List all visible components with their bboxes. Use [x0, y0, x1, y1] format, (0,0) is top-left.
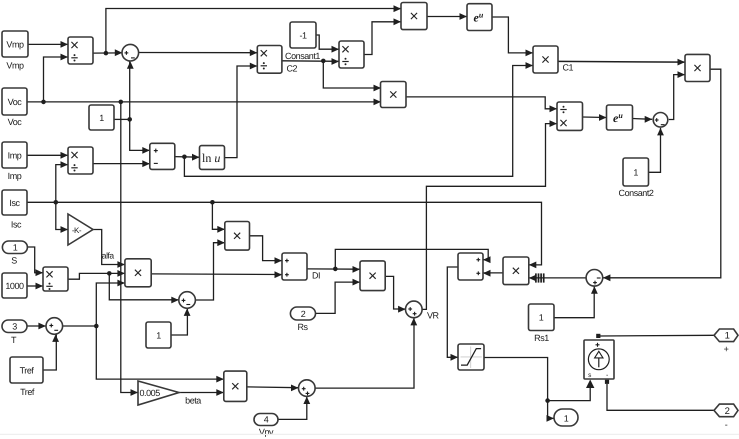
- node Isc branch to product K: [210, 200, 225, 233]
- PMC port 2 minus: [714, 404, 738, 429]
- inport 3 T: [2, 320, 27, 345]
- node DI branch to reversed sum: [333, 249, 491, 271]
- PMC port 1 plus: [714, 329, 738, 354]
- exp block eu2: [607, 105, 633, 130]
- svg-text:1: 1: [633, 168, 638, 178]
- exp block eu1: [467, 4, 492, 31]
- wire current source minus to port2: [607, 384, 714, 410]
- sum block Q reversed: [458, 253, 483, 280]
- svg-text:1: 1: [99, 113, 104, 123]
- wire Divide5 to productL: [68, 270, 125, 279]
- svg-text:Imp: Imp: [8, 151, 22, 161]
- wire Voc main line: [27, 99, 381, 106]
- wire Divide3 to productG: [364, 18, 401, 54]
- wire productJ to Sum7: [603, 69, 721, 281]
- inport 1 S: [2, 241, 27, 266]
- wire C1 to productJ: [558, 59, 685, 66]
- constant block 1 upper: [89, 105, 114, 130]
- wire Sum5 to Sum4: [315, 318, 417, 388]
- product block G top: [401, 3, 427, 30]
- source block Imp: [2, 142, 27, 181]
- svg-text:C2: C2: [287, 63, 298, 73]
- wire productM to Sum4: [385, 276, 405, 312]
- inport 2 Rs: [290, 307, 315, 332]
- svg-text:4: 4: [264, 414, 269, 424]
- svg-text:Imp: Imp: [8, 171, 22, 181]
- wire Rs to productM: [316, 279, 361, 314]
- svg-text:1: 1: [564, 414, 569, 424]
- window edge artifact: [0, 433, 739, 435]
- sum block R subtract: [150, 143, 175, 169]
- svg-text:2: 2: [725, 406, 730, 417]
- svg-text:Voc: Voc: [8, 97, 23, 107]
- wire S to Divide5: [27, 247, 43, 276]
- wire ln to C2 lower: [225, 63, 258, 158]
- wire Divide4 to eu2: [583, 114, 607, 121]
- node Voc branch down to gain beta input: [119, 100, 139, 396]
- wire productH to Divide4 upper: [406, 97, 557, 112]
- hatch marks on Sum7 output wire: [536, 273, 544, 282]
- wire gain0005 to productN: [179, 389, 224, 396]
- node Sum3 branch: [94, 280, 224, 383]
- wire Divide2 to Subtract: [93, 160, 150, 167]
- product block O reversed: [503, 257, 529, 285]
- svg-text:Rs: Rs: [297, 322, 308, 332]
- node C2 out branch to product H: [321, 59, 381, 92]
- wire Consant1 to Divide3: [316, 35, 339, 53]
- wire Saturation out: [484, 358, 554, 422]
- product block K: [225, 222, 250, 251]
- sum junction Sum2: [179, 292, 196, 309]
- inport 4 Vpv: [254, 414, 278, 437]
- svg-text:-K-: -K-: [72, 226, 82, 235]
- node Isc branch to Divide2 and gain: [54, 161, 69, 233]
- sum junction Sum7 reversed: [586, 270, 603, 287]
- svg-text:S: S: [11, 256, 17, 266]
- svg-text:beta: beta: [185, 396, 201, 406]
- wire gainK to productL: [93, 230, 125, 268]
- wire Imp to Divide2: [27, 152, 68, 159]
- wire Constant1mid to Sum2: [171, 308, 191, 335]
- wire Isc main line: [27, 202, 542, 268]
- saturation block: [458, 344, 484, 370]
- sum junction Sum1: [122, 44, 139, 61]
- sum block P DI: [282, 253, 320, 281]
- divide block Divide3: [339, 41, 364, 68]
- svg-text:DI: DI: [312, 271, 320, 281]
- node Voc branch to Divide1: [41, 54, 68, 105]
- wire productN to Sum5: [247, 385, 299, 392]
- product block J right: [685, 54, 710, 81]
- divide block Divide2 Imp/Isc: [68, 147, 93, 174]
- node Divide1 out branch to top: [104, 5, 401, 55]
- sum junction Sum5: [299, 380, 316, 397]
- divide block Divide1 Vmp/Voc: [68, 37, 93, 64]
- source block Isc: [2, 190, 27, 230]
- svg-text:ln u: ln u: [202, 151, 220, 165]
- svg-text:Consant1: Consant1: [285, 51, 320, 61]
- svg-text:+: +: [724, 344, 729, 354]
- wire sumP DI out: [307, 266, 360, 273]
- svg-text:0.005: 0.005: [140, 388, 161, 398]
- wire reversed product to reversed sum: [483, 270, 503, 277]
- constant block Rs1 1: [529, 304, 555, 343]
- wire Sum7 to reversed product: [529, 275, 586, 282]
- wire VR to Divide4 lower: [422, 120, 557, 309]
- wire Sum2 to productK: [195, 239, 225, 300]
- gain block -K-: [68, 214, 93, 245]
- sum junction Sum4 VR: [406, 301, 440, 321]
- product block N beta: [224, 371, 247, 401]
- svg-text:Consant2: Consant2: [619, 188, 654, 198]
- node Divide5 branch to Sum2: [107, 271, 179, 303]
- constant block 1 mid: [146, 322, 171, 348]
- svg-text:1: 1: [13, 242, 18, 252]
- svg-text:Vmp: Vmp: [6, 39, 24, 49]
- wire productL to sumP: [151, 271, 282, 278]
- sum junction Sum6: [653, 113, 668, 128]
- svg-text:-1: -1: [299, 31, 307, 41]
- svg-text:Voc: Voc: [8, 117, 23, 127]
- svg-text:Vpv: Vpv: [259, 427, 274, 437]
- svg-text:-: -: [725, 419, 728, 429]
- wire Vmp to Divide1: [28, 41, 68, 48]
- product block L alfa: [125, 259, 151, 287]
- gain block 0.005 beta: [138, 381, 201, 406]
- wire Subtract to ln: [175, 154, 200, 161]
- svg-text:alfa: alfa: [102, 251, 115, 261]
- wire C2 to Divide3: [282, 58, 339, 65]
- svg-text:C1: C1: [563, 62, 574, 72]
- svg-text:1: 1: [725, 331, 730, 342]
- svg-text:Tref: Tref: [20, 387, 35, 397]
- wire Rs1 to Sum7: [554, 286, 598, 317]
- wire T to Sum3: [27, 323, 46, 330]
- wire 1000 to Divide5: [27, 283, 43, 290]
- svg-text:1000: 1000: [5, 281, 24, 291]
- svg-text:1: 1: [539, 313, 544, 323]
- svg-text:2: 2: [301, 309, 306, 319]
- controlled current source block: [584, 334, 614, 384]
- wire Divide1 to Sum1: [93, 49, 122, 56]
- divide block Divide5 S/1000: [43, 267, 68, 291]
- product block M: [360, 261, 385, 291]
- net label alfa: [102, 251, 115, 261]
- wire Tref to Sum3: [43, 334, 59, 370]
- wire productK to sumP: [250, 236, 283, 264]
- wire current source plus to port1: [600, 334, 714, 337]
- wire eu2 to Sum6: [633, 116, 653, 123]
- constant block Consant2 1: [619, 158, 654, 198]
- svg-text:Isc: Isc: [11, 220, 22, 230]
- outport 1 oval: [554, 409, 578, 426]
- wire Vpv to Sum5: [278, 397, 310, 420]
- node Constant1top branch: [114, 61, 150, 154]
- wire reversed sum to Saturation: [447, 267, 458, 361]
- source block Vmp: [2, 31, 28, 71]
- divide block Divide4: [557, 102, 583, 130]
- svg-text:Vmp: Vmp: [6, 61, 24, 71]
- svg-text:Tref: Tref: [20, 366, 35, 376]
- sum junction Sum3: [46, 318, 63, 335]
- svg-text:T: T: [11, 335, 17, 345]
- svg-text:1: 1: [156, 331, 161, 341]
- divide block C2: [257, 46, 297, 74]
- svg-text:VR: VR: [427, 311, 440, 321]
- wire Consant2 to Sum6: [649, 128, 664, 172]
- constant block 1000: [2, 273, 27, 298]
- node Saturation branch to current source: [545, 380, 594, 403]
- svg-text:3: 3: [12, 321, 17, 331]
- constant block Consant1 -1: [285, 22, 320, 61]
- product block H: [381, 82, 407, 108]
- wire Sum6 to productJ lower: [669, 71, 685, 119]
- wire Sum1 to C2: [139, 49, 258, 56]
- wire Sum3 out: [63, 325, 97, 327]
- product block C1: [533, 46, 574, 73]
- ln block: [200, 146, 225, 170]
- node Subtract out branch to C1: [182, 62, 533, 176]
- source block Tref: [10, 357, 43, 397]
- wire productG to eu1: [427, 13, 467, 20]
- svg-text:Rs1: Rs1: [534, 333, 549, 343]
- svg-text:Isc: Isc: [9, 198, 20, 208]
- wire eu1 to C1 upper: [492, 17, 533, 56]
- source block Voc: [2, 88, 27, 127]
